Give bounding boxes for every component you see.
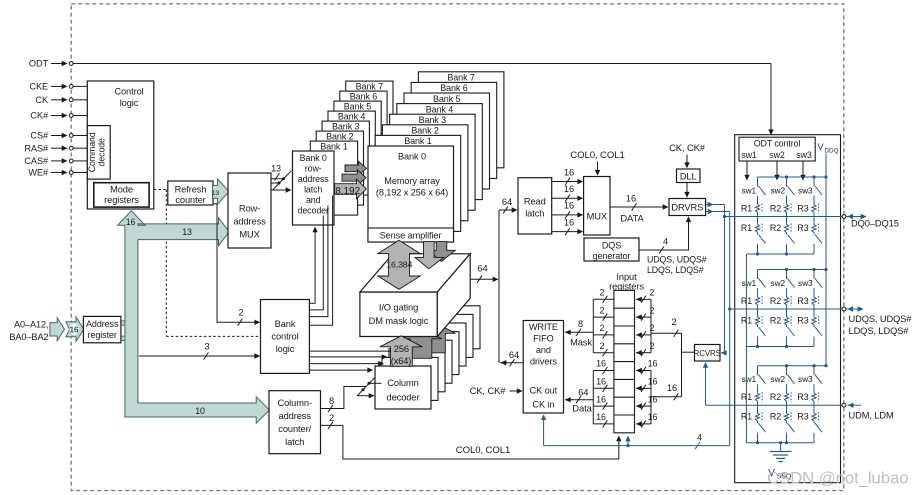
svg-text:CS#: CS# — [30, 131, 49, 141]
svg-text:latch: latch — [304, 185, 322, 195]
svg-text:Row-: Row- — [239, 204, 260, 214]
wire into RCVRS right edge — [721, 352, 725, 354]
svg-text:CK: CK — [35, 95, 49, 105]
DLL box — [677, 169, 701, 183]
wire RCVRS to input register brackets (2 and 16) — [682, 351, 695, 353]
svg-text:2: 2 — [600, 305, 605, 315]
wires bank control to column decoder stack — [309, 350, 390, 352]
column decoder stack (behind) — [424, 306, 480, 349]
gray arrow 16384 double-headed with label — [378, 240, 420, 289]
svg-text:Column: Column — [387, 378, 418, 388]
svg-text:generator: generator — [593, 251, 631, 261]
svg-text:sw1: sw1 — [742, 374, 757, 384]
svg-text:Bank 1: Bank 1 — [320, 142, 348, 152]
svg-text:16: 16 — [648, 412, 658, 422]
bank 0 row-address latch and decoder box — [293, 151, 335, 225]
VSSQ rail — [745, 254, 747, 443]
svg-text:13: 13 — [212, 190, 220, 197]
input registers right bracket (2-wide rows) — [650, 299, 652, 352]
svg-text:(8,192 x 256 x 64): (8,192 x 256 x 64) — [376, 188, 448, 198]
svg-text:2: 2 — [600, 288, 605, 298]
svg-text:CK out: CK out — [530, 386, 558, 396]
gray arrow 16384 small light — [415, 242, 444, 269]
svg-text:registers: registers — [104, 195, 139, 205]
svg-text:DRVRS: DRVRS — [671, 203, 703, 213]
pad UDQS LDQS — [842, 307, 846, 311]
ODT group 2 branch sw2/R2 — [786, 270, 788, 280]
svg-text:R1: R1 — [741, 204, 752, 214]
svg-text:CKE: CKE — [29, 82, 48, 92]
ground symbol VSSQ — [780, 443, 782, 452]
memory array bank stack banks 1-7 — [418, 72, 504, 168]
I/O gating 3D box — [360, 292, 437, 337]
svg-text:16: 16 — [648, 359, 658, 369]
svg-text:Bank 5: Bank 5 — [433, 94, 461, 104]
svg-text:sw2: sw2 — [771, 278, 786, 288]
svg-text:R2: R2 — [770, 316, 781, 326]
svg-text:8: 8 — [329, 396, 334, 406]
svg-text:UDM, LDM: UDM, LDM — [849, 411, 894, 421]
svg-text:Memory array: Memory array — [384, 176, 440, 186]
svg-text:WE#: WE# — [28, 168, 49, 178]
ODT group 1 bottom rail — [746, 253, 814, 255]
svg-text:latch: latch — [525, 209, 544, 219]
svg-text:Bank 2: Bank 2 — [411, 126, 439, 136]
svg-text:Column-: Column- — [277, 398, 311, 408]
svg-text:R2: R2 — [770, 412, 781, 422]
wire 64 Data input registers to write FIFO — [565, 399, 593, 401]
svg-text:16: 16 — [126, 217, 136, 227]
svg-text:Bank 5: Bank 5 — [344, 102, 372, 112]
svg-text:R3: R3 — [797, 204, 808, 214]
svg-text:16: 16 — [667, 383, 677, 393]
wire bus row MUX to latch stack (fan with dots) — [271, 189, 288, 191]
svg-text:MUX: MUX — [239, 230, 259, 240]
ODT group 3 bottom rail — [746, 442, 814, 444]
svg-text:16: 16 — [596, 412, 606, 422]
wire 8 Mask input registers to write FIFO — [565, 331, 593, 333]
svg-text:ODT: ODT — [29, 59, 49, 69]
svg-text:16: 16 — [70, 326, 79, 335]
svg-text:4: 4 — [697, 433, 702, 443]
svg-text:sw3: sw3 — [796, 150, 812, 160]
teal bus tab upper at address register — [121, 321, 125, 325]
wire 8 column counter to column decoder (fan with dots) — [321, 387, 367, 409]
svg-text:logic: logic — [276, 344, 295, 354]
svg-text:2: 2 — [650, 288, 655, 298]
ODT group 3 branch sw2/R2 — [786, 366, 788, 376]
svg-text:Address: Address — [86, 319, 119, 329]
svg-text:Bank 1: Bank 1 — [404, 136, 432, 146]
svg-text:Bank 7: Bank 7 — [356, 82, 384, 92]
svg-text:UDQS, UDQS#: UDQS, UDQS# — [849, 314, 912, 324]
svg-text:16: 16 — [626, 194, 636, 204]
svg-text:and: and — [536, 345, 551, 355]
svg-text:ODT control: ODT control — [754, 139, 801, 149]
svg-text:Bank 4: Bank 4 — [426, 104, 454, 114]
wire 2 COL0 COL1 column counter to input registers — [321, 425, 619, 459]
svg-text:FIFO: FIFO — [533, 333, 554, 343]
svg-text:DDQ: DDQ — [825, 148, 839, 155]
svg-text:R3: R3 — [797, 223, 808, 233]
svg-text:16: 16 — [564, 167, 574, 177]
column decoder front box — [375, 366, 431, 409]
svg-text:Control: Control — [114, 87, 143, 97]
svg-text:counter: counter — [175, 195, 205, 205]
mode registers box — [94, 183, 149, 207]
control logic box — [87, 81, 154, 209]
svg-text:Bank 3: Bank 3 — [332, 122, 360, 132]
svg-text:DLL: DLL — [680, 171, 697, 181]
svg-text:R2: R2 — [770, 223, 781, 233]
ODT group 2 bottom rail — [746, 346, 814, 348]
input registers stack — [614, 290, 635, 432]
svg-text:2: 2 — [650, 305, 655, 315]
svg-text:3: 3 — [204, 342, 209, 352]
svg-text:Mask: Mask — [570, 338, 592, 348]
svg-text:Bank 4: Bank 4 — [338, 112, 366, 122]
svg-text:8,192: 8,192 — [335, 186, 360, 197]
svg-text:A0–A12,: A0–A12, — [14, 320, 49, 330]
input registers left bracket (16-wide rows) — [592, 371, 594, 424]
svg-text:Bank 6: Bank 6 — [440, 83, 468, 93]
svg-text:Bank: Bank — [275, 319, 296, 329]
svg-text:16: 16 — [564, 217, 574, 227]
mux box — [584, 177, 610, 236]
ODT group 1 (DQ) mid line — [725, 216, 845, 218]
svg-text:decoder: decoder — [387, 393, 420, 403]
svg-text:13: 13 — [271, 164, 281, 174]
teal input arrow 16 at border — [66, 317, 84, 342]
svg-text:10: 10 — [195, 406, 205, 416]
svg-text:MUX: MUX — [587, 212, 607, 222]
wire 16 DATA mux to DRVRS — [610, 206, 666, 208]
input registers right bracket (16-wide rows) — [650, 371, 652, 424]
wires bank control to row latch stack — [309, 230, 315, 304]
svg-text:R3: R3 — [797, 316, 808, 326]
refresh counter box — [168, 181, 213, 205]
svg-text:drivers: drivers — [530, 356, 557, 366]
wire 3 address bus to bank control logic — [139, 355, 260, 357]
ODT group 3 top rail — [758, 365, 827, 367]
ODT group 3 (DM) mid line — [706, 404, 845, 406]
bank control logic box — [261, 300, 310, 374]
bank row-address latch stack banks 1-7 — [346, 81, 393, 155]
svg-text:latch: latch — [285, 437, 304, 447]
svg-text:2: 2 — [329, 413, 334, 423]
svg-text:register: register — [88, 330, 117, 340]
gray arrow 8192 light with label — [335, 179, 367, 199]
svg-text:Input: Input — [616, 272, 637, 282]
wires ODT control to switches — [746, 161, 748, 178]
svg-text:R3: R3 — [797, 392, 808, 402]
svg-text:sw3: sw3 — [798, 278, 813, 288]
DQS generator box — [584, 238, 639, 261]
VDDQ rail — [825, 154, 827, 366]
svg-text:CK#: CK# — [30, 111, 49, 121]
svg-text:logic: logic — [120, 98, 139, 108]
svg-text:256: 256 — [394, 344, 409, 354]
svg-text:sw1: sw1 — [741, 150, 757, 160]
ODT group 3 branch sw3/R3 — [813, 366, 815, 376]
ODT group 1 top rail — [758, 176, 827, 178]
pad UDM LDM — [842, 403, 846, 407]
svg-text:R3: R3 — [797, 296, 808, 306]
svg-text:WRITE: WRITE — [529, 322, 558, 332]
gray arrow 256 light with labels — [380, 336, 422, 367]
svg-text:decoder: decoder — [298, 206, 330, 216]
ODT group 2 (DQS) mid line — [730, 308, 844, 310]
wire 64 I/O gating to read latch and write FIFO — [471, 278, 496, 280]
svg-text:16: 16 — [564, 201, 574, 211]
DRVRS box — [669, 199, 706, 216]
svg-text:Refresh: Refresh — [175, 185, 207, 195]
svg-text:16: 16 — [564, 184, 574, 194]
svg-text:16: 16 — [648, 377, 658, 387]
svg-text:64: 64 — [578, 388, 588, 398]
svg-text:sw3: sw3 — [798, 374, 813, 384]
svg-text:16,384: 16,384 — [386, 260, 412, 270]
svg-text:Bank 6: Bank 6 — [350, 92, 378, 102]
gray arrow 256 dark far (behind) — [413, 322, 455, 353]
svg-text:2: 2 — [600, 323, 605, 333]
write FIFO box — [523, 321, 563, 414]
ODT group 2 top rail — [758, 269, 827, 271]
teal arrow 13 refresh-counter to row-address MUX — [212, 179, 229, 204]
svg-text:Read: Read — [524, 197, 546, 207]
ODT group 1 branch sw1/R1 — [757, 177, 759, 187]
svg-text:LDQS, LDQS#: LDQS, LDQS# — [647, 265, 704, 275]
svg-text:I/O gating: I/O gating — [379, 303, 418, 313]
ODT group 1 branch sw3/R3 — [813, 177, 815, 187]
svg-text:Bank 2: Bank 2 — [326, 132, 354, 142]
svg-text:sw3: sw3 — [798, 186, 813, 196]
svg-text:sw2: sw2 — [771, 374, 786, 384]
ODT group 2 branch sw3/R3 — [813, 270, 815, 280]
input registers left bracket (2-wide rows) — [592, 299, 594, 352]
svg-text:and: and — [306, 195, 321, 205]
svg-text:R2: R2 — [770, 296, 781, 306]
teal bus tab lower at address register — [121, 336, 125, 340]
gray arrow 8192 dark (behind) — [342, 170, 366, 186]
svg-text:address: address — [298, 174, 330, 184]
svg-text:address: address — [233, 217, 266, 227]
svg-text:16: 16 — [596, 394, 606, 404]
RCVRS box — [695, 345, 721, 362]
svg-text:RAS#: RAS# — [24, 143, 49, 153]
svg-text:address: address — [279, 411, 312, 421]
svg-text:COL0, COL1: COL0, COL1 — [570, 150, 624, 161]
wire DRVRS upper output to DQ net — [706, 204, 725, 206]
svg-text:BA0–BA2: BA0–BA2 — [9, 332, 48, 342]
ODT group 3 branch sw1/R1 — [757, 366, 759, 376]
svg-text:Bank 3: Bank 3 — [419, 115, 447, 125]
gray arrow 16384 small dark (behind) — [428, 242, 455, 262]
svg-text:counter/: counter/ — [278, 424, 311, 434]
svg-text:2: 2 — [650, 323, 655, 333]
svg-text:2: 2 — [600, 341, 605, 351]
svg-text:Sense amplifier: Sense amplifier — [380, 231, 442, 241]
read latch box — [518, 178, 552, 234]
ODT container box — [735, 135, 841, 483]
svg-text:control: control — [271, 332, 298, 342]
svg-text:8: 8 — [578, 319, 583, 329]
ODT control box — [739, 137, 815, 161]
svg-text:Bank 7: Bank 7 — [447, 73, 475, 83]
svg-text:64: 64 — [502, 197, 512, 207]
svg-text:DQ0–DQ15: DQ0–DQ15 — [851, 219, 899, 229]
pad DQ0-DQ15 — [842, 215, 846, 219]
wires 16x4 read latch to MUX — [552, 181, 581, 183]
svg-text:DATA: DATA — [620, 213, 644, 224]
svg-text:(x64): (x64) — [391, 356, 411, 366]
wire 4 DQS generator to DRVRS — [639, 219, 689, 250]
svg-text:16: 16 — [596, 359, 606, 369]
dashed wire mode-registers to refresh counter and bank control — [154, 189, 168, 191]
svg-text:CSDN @not_lubao: CSDN @not_lubao — [767, 469, 908, 488]
svg-text:sw1: sw1 — [742, 186, 757, 196]
svg-text:Bank 0: Bank 0 — [398, 152, 426, 162]
sense amplifier strip — [368, 228, 454, 242]
ODT group 1 branch sw2/R2 — [786, 177, 788, 187]
wire DRVRS lower output to DQS net — [706, 211, 730, 213]
column-address counter/latch box — [269, 391, 321, 454]
svg-text:2: 2 — [238, 308, 243, 318]
svg-text:COL0, COL1: COL0, COL1 — [456, 445, 510, 456]
svg-text:sw2: sw2 — [771, 186, 786, 196]
svg-text:CK, CK#: CK, CK# — [669, 142, 706, 153]
svg-text:16: 16 — [648, 394, 658, 404]
svg-text:R1: R1 — [741, 223, 752, 233]
svg-text:2: 2 — [671, 317, 676, 327]
svg-text:R3: R3 — [797, 412, 808, 422]
svg-text:UDQS, UDQS#: UDQS, UDQS# — [647, 255, 707, 265]
svg-text:LDQS, LDQS#: LDQS, LDQS# — [849, 326, 910, 336]
svg-text:64: 64 — [477, 264, 487, 274]
svg-text:Command: Command — [87, 132, 97, 172]
teal input arrow A0-A12 — [50, 318, 65, 341]
address register box — [83, 316, 121, 342]
svg-text:Mode: Mode — [110, 185, 133, 195]
svg-text:V: V — [818, 142, 824, 152]
svg-text:decode: decode — [96, 138, 106, 166]
wire DQS 4-bus to write FIFO and input registers — [544, 445, 730, 447]
svg-text:64: 64 — [509, 350, 519, 360]
svg-text:Data: Data — [572, 403, 592, 414]
svg-text:DM mask logic: DM mask logic — [369, 316, 429, 326]
ODT group 2 branch sw1/R1 — [757, 270, 759, 280]
svg-text:2: 2 — [650, 341, 655, 351]
teal address bus (16 up-arrow, vertical band, 13 arrow, 10 arrow) — [118, 211, 270, 423]
command decode box — [87, 126, 110, 180]
wire 2 refresh counter to bank control logic — [213, 204, 260, 322]
svg-text:RCVRS: RCVRS — [694, 349, 721, 358]
gray arrow 256 dark near (behind) — [400, 328, 442, 359]
svg-text:R2: R2 — [770, 392, 781, 402]
svg-text:R2: R2 — [770, 204, 781, 214]
svg-text:13: 13 — [182, 227, 192, 237]
svg-text:CK in: CK in — [532, 400, 554, 410]
memory array bank 0 box — [368, 146, 454, 242]
row-address MUX box — [228, 173, 271, 248]
svg-text:Bank 0: Bank 0 — [300, 153, 327, 163]
svg-text:16: 16 — [596, 377, 606, 387]
svg-text:row-: row- — [305, 164, 322, 174]
wire UDM net to RCVRS bottom — [705, 364, 707, 405]
svg-text:4: 4 — [663, 237, 668, 247]
wire DLL to DRVRS — [686, 183, 688, 195]
svg-text:sw2: sw2 — [769, 150, 785, 160]
gray arrow 8192 third (behind) — [345, 162, 367, 176]
svg-text:sw1: sw1 — [742, 278, 757, 288]
svg-text:CAS#: CAS# — [24, 156, 49, 166]
svg-text:DQS: DQS — [602, 241, 621, 251]
svg-text:CK, CK#: CK, CK# — [470, 385, 507, 396]
